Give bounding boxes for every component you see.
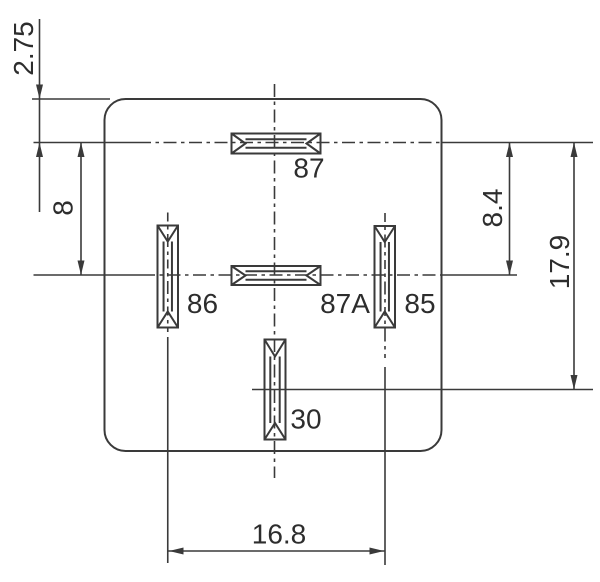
svg-text:30: 30 bbox=[290, 404, 321, 435]
centerline pin 86 axis (dash-dot through pin) bbox=[167, 213, 169, 333]
dimension 8.4 value label bbox=[477, 189, 508, 228]
extension line row 87 right bbox=[442, 142, 594, 144]
extension line pin 86 axis down (for 16.8) bbox=[167, 337, 169, 563]
dimension 8 (row 87 to middle row, left) bbox=[80, 143, 82, 276]
svg-text:87: 87 bbox=[293, 153, 324, 184]
extension line middle row left bbox=[34, 274, 143, 276]
dimension 16.8 arrow right bbox=[370, 548, 385, 555]
svg-text:87A: 87A bbox=[320, 288, 370, 319]
svg-text:16.8: 16.8 bbox=[252, 519, 307, 550]
dimension 16.8 (pin 86 axis to pin 85 axis) bbox=[168, 550, 385, 552]
dimension 17.9 arrow up bbox=[571, 143, 578, 158]
centerline vertical (pins 87/87A/30 axis) bbox=[274, 84, 276, 478]
relay body outline bbox=[105, 99, 442, 451]
label 85 bbox=[404, 288, 435, 319]
centerline middle row (dash-dot through pins 86/87A/85) bbox=[142, 274, 442, 276]
pin 30 (bottom blade terminal) bbox=[265, 340, 286, 440]
extension line row 87 left bbox=[34, 142, 139, 144]
dimension 17.9 value label bbox=[544, 235, 575, 290]
extension line top edge left (for 2.75) bbox=[32, 98, 110, 100]
pin 87A (middle blade terminal) bbox=[232, 266, 321, 285]
svg-text:8.4: 8.4 bbox=[477, 189, 508, 228]
svg-text:8: 8 bbox=[48, 200, 79, 216]
label 30 bbox=[290, 404, 321, 435]
pin 86 (left blade terminal) bbox=[158, 226, 179, 328]
extension line row 30 (pin 30 axis, to 17.9 dimension) bbox=[252, 389, 593, 391]
dimension 8 value label bbox=[48, 200, 79, 216]
centerline row 87 (dash-dot through pin 87) bbox=[138, 142, 442, 144]
label 87A bbox=[320, 288, 370, 319]
svg-text:85: 85 bbox=[404, 288, 435, 319]
label 86 bbox=[187, 288, 218, 319]
extension line middle row right bbox=[442, 274, 518, 276]
svg-text:2.75: 2.75 bbox=[8, 21, 39, 76]
dimension 16.8 arrow left bbox=[169, 548, 184, 555]
dimension 17.9 (row 87 to row 30, far right) bbox=[573, 143, 575, 390]
dimension 8 arrow up bbox=[78, 143, 85, 158]
label 87 bbox=[293, 153, 324, 184]
dimension 2.75 value label bbox=[8, 21, 39, 76]
centerline pin 85 axis (dash-dot through pin) bbox=[384, 213, 386, 358]
pin 85 (right blade terminal) bbox=[375, 226, 396, 328]
dimension 8.4 arrow down bbox=[506, 261, 513, 276]
dimension 16.8 value label bbox=[252, 519, 307, 550]
dimension 17.9 arrow down bbox=[571, 375, 578, 390]
dimension 8.4 arrow up bbox=[506, 143, 513, 158]
extension line pin 85 axis down (for 16.8) bbox=[384, 367, 386, 565]
svg-text:86: 86 bbox=[187, 288, 218, 319]
dimension 2.75 arrow up bbox=[36, 143, 43, 158]
dimension 8 arrow down bbox=[78, 261, 85, 276]
pin 87 (top blade terminal) bbox=[232, 134, 321, 154]
svg-text:17.9: 17.9 bbox=[544, 235, 575, 290]
dimension 8.4 (row 87 to middle row, right) bbox=[509, 143, 511, 276]
dimension 2.75 (top edge to row 87) bbox=[39, 19, 41, 212]
dimension 2.75 arrow down bbox=[36, 85, 43, 100]
